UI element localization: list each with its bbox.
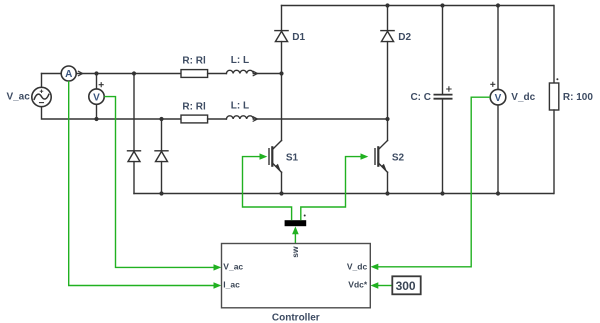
svg-text:L: L: L: L (231, 101, 249, 112)
arrow into I_ac port (214, 282, 222, 288)
node top rail / V sensor (94, 71, 98, 75)
dot mark near R:100 (556, 78, 558, 80)
wire top rail with arrow (76, 73, 181, 75)
arrow into demux (292, 226, 299, 234)
svg-text:I_ac: I_ac (223, 280, 240, 290)
svg-text:300: 300 (396, 279, 416, 293)
signal wire 300 to Vdc* (377, 285, 392, 287)
arrow into Vdc* port (371, 282, 379, 288)
signal wire demux out2 to S2 gate (301, 157, 366, 221)
node lower rail / clamp diode B (159, 117, 163, 121)
node top bus / leg2 (385, 3, 389, 7)
diode D2 (387, 6, 389, 31)
wire source bottom lead (42, 107, 182, 119)
wire lower phase to leg 2 (253, 118, 387, 120)
svg-text:V: V (495, 93, 502, 104)
svg-text:A: A (65, 69, 72, 80)
svg-text:V_dc: V_dc (511, 92, 535, 103)
svg-text:C: C: C: C (410, 92, 431, 103)
node bottom bus / leg1 (279, 191, 283, 195)
arrow into V_dc port (371, 264, 379, 270)
signal wire A sensor to controller I_ac (69, 81, 215, 286)
dot mark near demux (304, 215, 306, 217)
demux sw (285, 220, 307, 226)
IGBT S2 (378, 141, 387, 150)
svg-text:V_ac: V_ac (223, 262, 243, 272)
resistor R:100 (553, 6, 555, 84)
arrow into S2 gate (361, 153, 369, 159)
svg-text:Vdc*: Vdc* (348, 280, 368, 290)
svg-text:L: L: L: L (231, 55, 249, 66)
svg-text:V: V (93, 92, 100, 103)
node lower rail / V sensor (94, 117, 98, 121)
node lower phase / leg2 (385, 117, 389, 121)
diode D1 (281, 6, 283, 31)
svg-text:S1: S1 (286, 152, 299, 163)
inductor L lower (226, 116, 253, 119)
signal wire V sensor to controller V_ac (104, 97, 214, 268)
wire upper phase to leg 1 (253, 73, 281, 75)
arrow into S1 gate (260, 153, 268, 159)
controller block (222, 244, 371, 308)
inductor L upper (226, 70, 253, 73)
svg-text:R: 100: R: 100 (563, 92, 593, 103)
node top bus / V_dc (496, 3, 500, 7)
resistor R:Rl upper (181, 70, 208, 78)
svg-text:sw: sw (290, 246, 300, 258)
node bottom bus / leg2 (385, 191, 389, 195)
clamp diode DB (161, 119, 163, 151)
wire top rail left (42, 73, 62, 75)
svg-text:S2: S2 (392, 152, 405, 163)
bottom bus (134, 193, 554, 195)
signal wire demux out1 to S1 gate (243, 157, 292, 221)
node bottom bus / clamp B (159, 191, 163, 195)
arrow into V_ac port (214, 264, 222, 270)
node top bus / capacitor (440, 3, 444, 7)
top bus (282, 5, 554, 7)
node upper phase / leg1 (279, 71, 283, 75)
node bottom bus / capacitor (440, 191, 444, 195)
voltmeter V1 (96, 74, 98, 89)
capacitor C (442, 6, 444, 95)
wire source top lead (41, 74, 43, 88)
clamp diode DA (133, 74, 135, 151)
svg-text:V_ac: V_ac (6, 92, 30, 103)
wire upper between R and L (208, 73, 227, 75)
voltmeter V_dc (497, 6, 499, 90)
IGBT S1 (272, 141, 281, 150)
node bottom bus / V_dc (496, 191, 500, 195)
ammeter A1 (61, 66, 76, 81)
wire lower between R and L (208, 118, 227, 120)
svg-text:D2: D2 (398, 32, 411, 43)
constant block 300 (392, 276, 420, 294)
svg-text:R: Rl: R: Rl (182, 101, 206, 112)
svg-text:Controller: Controller (272, 312, 320, 323)
signal wire V_dc sensor to controller (377, 97, 490, 267)
svg-text:V_dc: V_dc (347, 262, 368, 272)
signal wire controller sw to demux (294, 234, 296, 244)
resistor R:Rl lower (181, 115, 208, 123)
node top rail / clamp diode A (132, 71, 136, 75)
svg-text:D1: D1 (292, 32, 305, 43)
svg-text:R: Rl: R: Rl (182, 56, 206, 67)
voltage source V_ac (32, 87, 51, 106)
